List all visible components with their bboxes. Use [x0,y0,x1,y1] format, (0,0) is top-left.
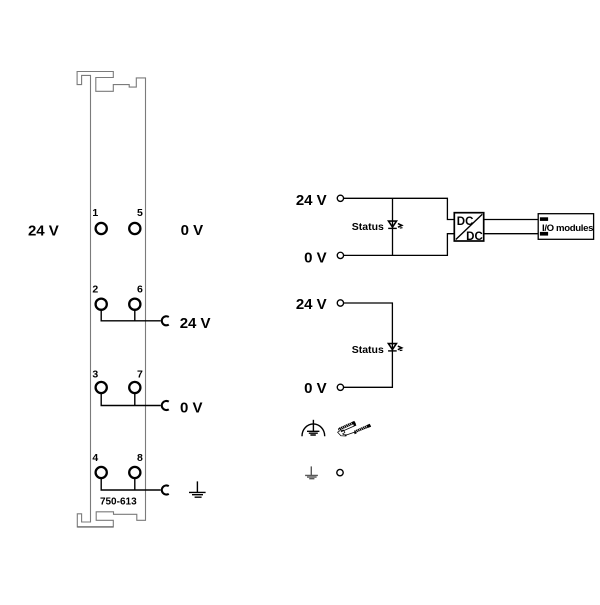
svg-text:Status: Status [352,221,384,233]
svg-text:0 V: 0 V [180,400,203,417]
svg-text:5: 5 [137,207,143,219]
svg-text:750-613: 750-613 [100,497,137,508]
svg-text:I/O modules: I/O modules [542,223,593,234]
svg-text:0 V: 0 V [304,380,327,397]
svg-text:DC: DC [466,231,483,243]
svg-text:Status: Status [352,344,384,356]
svg-text:0 V: 0 V [181,222,204,239]
svg-text:4: 4 [92,452,98,464]
svg-text:24 V: 24 V [28,222,59,239]
svg-text:6: 6 [137,283,143,295]
svg-text:0 V: 0 V [304,250,327,267]
svg-text:1: 1 [92,207,98,219]
svg-text:3: 3 [92,368,98,380]
svg-text:24 V: 24 V [180,315,211,332]
svg-text:24 V: 24 V [296,192,327,209]
svg-text:7: 7 [137,368,143,380]
svg-text:2: 2 [92,283,98,295]
svg-text:24 V: 24 V [296,296,327,313]
svg-text:8: 8 [137,452,143,464]
svg-text:DC: DC [457,216,474,228]
